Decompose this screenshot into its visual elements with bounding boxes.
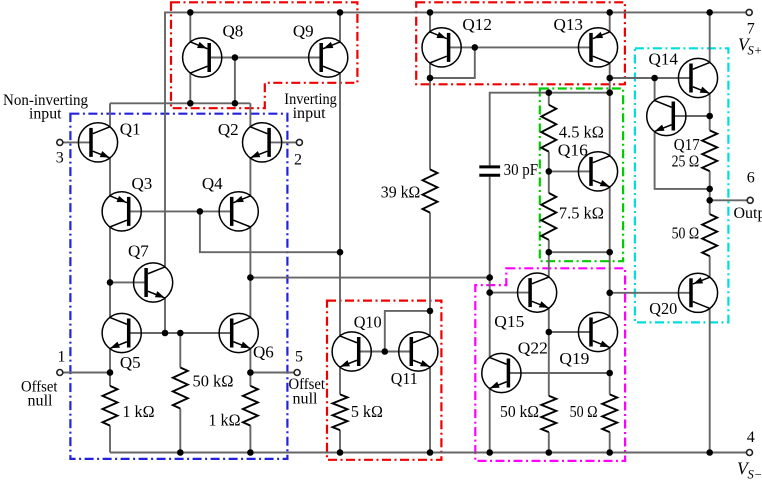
svg-text:Q1: Q1 — [120, 120, 141, 139]
junction Q12 collector node — [427, 75, 434, 82]
junction cap wire at Q13 column — [606, 89, 613, 96]
wire Q12 collector to 39k — [429, 63, 431, 169]
svg-text:Q13: Q13 — [554, 15, 584, 34]
svg-text:4: 4 — [747, 429, 755, 446]
transistor Q8 — [183, 38, 222, 77]
svg-text:50 Ω: 50 Ω — [570, 402, 598, 421]
wire Q22 base to Q19 emitter node — [508, 372, 609, 374]
transistor Q4 — [219, 192, 258, 231]
junction Q13 collector node — [606, 75, 613, 82]
junction 50R output bias on rail — [606, 449, 613, 456]
svg-text:Q5: Q5 — [120, 353, 141, 372]
junction Q15 collector node — [546, 249, 553, 256]
svg-text:50 kΩ: 50 kΩ — [500, 402, 539, 421]
svg-text:Q11: Q11 — [391, 369, 418, 388]
wire terminal 5 offset null — [250, 372, 293, 374]
junction Q8 collector node — [187, 100, 194, 107]
transistor Q12 — [422, 28, 461, 67]
wire Q12 base-collector tie — [430, 47, 475, 78]
resistor 7.5 kOhm — [541, 193, 556, 240]
junction Q17 collector node — [651, 75, 658, 82]
wire Q4 collector down — [249, 227, 251, 278]
junction 50k top on base rail — [177, 330, 184, 337]
resistor 50 Ohm output — [702, 214, 717, 256]
junction cap top node — [546, 89, 553, 96]
wire Q10/Q11 base tie to Q11 collector — [385, 311, 430, 352]
svg-text:input: input — [293, 105, 327, 122]
wire Q9 collector down to Q10 collector — [339, 73, 341, 336]
terminal pin 4 VS- — [747, 450, 753, 456]
svg-text:1 kΩ: 1 kΩ — [123, 402, 155, 421]
svg-text:null: null — [28, 392, 54, 409]
junction output node — [706, 197, 713, 204]
wire Q20 collector to rail — [709, 308, 711, 452]
svg-text:2: 2 — [294, 152, 302, 169]
svg-text:S−: S− — [748, 468, 762, 482]
svg-text:Q4: Q4 — [202, 174, 223, 193]
resistor 25 Ohm — [702, 130, 717, 171]
junction Q19 base node — [546, 329, 553, 336]
transistor Q3 — [102, 192, 141, 231]
capacitor 30 pF — [479, 165, 500, 168]
resistor 4.5 kOhm — [541, 105, 556, 152]
svg-text:Q2: Q2 — [218, 120, 239, 139]
junction 50k output bias on rail — [546, 449, 553, 456]
wire Q15 collector up — [548, 252, 550, 277]
junction base tie on 39k column — [427, 308, 434, 315]
resistor 50 kOhm output bias — [541, 396, 556, 432]
current mirror box (Q12,Q13) red dash-dot — [416, 2, 625, 84]
wire Q12 emitter to rail — [429, 12, 431, 31]
terminal pin 5 offset null — [294, 370, 300, 376]
junction Q4/Q6 collector node — [247, 274, 254, 281]
svg-text:5: 5 — [295, 349, 303, 366]
junction 5k bottom on rail — [337, 449, 344, 456]
resistor 1 kOhm right — [243, 386, 258, 426]
wire 50k resistor bottom lead — [179, 409, 181, 453]
wire right 1k resistor to rail — [249, 426, 251, 453]
wire 1k resistor to rail corner — [109, 426, 111, 453]
wire V- bottom rail — [110, 452, 747, 454]
wire output to terminal 6 — [710, 199, 747, 201]
wire Q3/Q4 base node to Q9/Q10 column — [200, 211, 340, 252]
wire Q13 collector to Q14 base — [610, 77, 691, 79]
junction Q14 collector on rail — [706, 9, 713, 16]
wire 50k to rail — [548, 432, 550, 452]
svg-text:Q12: Q12 — [462, 15, 492, 34]
svg-text:1: 1 — [58, 349, 66, 366]
wire Q10-Q11 bases — [359, 351, 412, 353]
wire Q4/Q6 collector node to gain stage — [250, 277, 489, 279]
class A gain stage bias box green dash-dot — [540, 89, 623, 262]
transistor Q7 — [134, 263, 173, 302]
transistor Q22 — [482, 353, 521, 392]
svg-text:Output: Output — [734, 205, 762, 222]
wire 50R to Q20 emitter — [709, 256, 711, 277]
wire Q3 collector down to Q5 collector — [109, 227, 111, 317]
wire Q15 base — [490, 292, 530, 294]
junction Q11 emitter on rail — [427, 449, 434, 456]
wire Q14 emitter to 25R — [709, 94, 711, 131]
wire terminal 3 to Q1 base — [63, 141, 91, 143]
wire Q1 collector up — [109, 103, 111, 127]
wire Q9 emitter to rail — [339, 12, 341, 42]
wire Q2 base to terminal 2 — [269, 141, 296, 143]
wire terminal 1 offset null — [63, 372, 110, 374]
wire 5k to rail — [339, 430, 341, 452]
resistor 50 Ohm output bias — [602, 394, 617, 432]
svg-text:Q6: Q6 — [253, 343, 274, 362]
svg-text:input: input — [29, 106, 62, 123]
output stage box cyan dash-dot — [635, 48, 729, 322]
wire Q14 collector to rail — [709, 12, 711, 62]
junction Q17 emitter node — [706, 186, 713, 193]
wire Q8-Q9 bases — [209, 57, 321, 59]
wire Q16 base — [549, 170, 591, 172]
junction base wire on Q9/Q10 column — [337, 249, 344, 256]
wire Q12-Q13 bases — [449, 46, 591, 48]
svg-text:S+: S+ — [748, 44, 762, 58]
junction base drop on collector wire — [232, 100, 239, 107]
wire 7.5k top lead — [548, 171, 550, 193]
svg-text:5 kΩ: 5 kΩ — [351, 402, 383, 421]
wire Q5-Q6 bases — [129, 332, 232, 334]
wire Q11 emitter to rail — [429, 367, 431, 452]
svg-text:25 Ω: 25 Ω — [672, 152, 700, 171]
resistor 39 kOhm — [423, 169, 438, 212]
wire 30pF bottom plate lead — [489, 177, 491, 278]
wire V+ top rail and Q7 collector riser — [165, 12, 746, 267]
output stage bias box magenta dash-dot — [475, 268, 625, 461]
terminal pin 6 output — [747, 197, 753, 203]
wire Q1/Q2 collectors horizontal — [110, 102, 250, 104]
transistor Q5 — [102, 313, 141, 352]
junction Q3/Q4 base node — [197, 208, 204, 215]
transistor Q6 — [219, 313, 258, 352]
svg-text:Q10: Q10 — [354, 313, 382, 332]
svg-text:Q9: Q9 — [293, 22, 314, 41]
junction Q22 emitter on rail — [486, 449, 493, 456]
svg-text:null: null — [293, 391, 319, 408]
junction Q8/Q9 base node — [232, 54, 239, 61]
wire Q17 collector to Q14 base — [654, 78, 656, 100]
wire Q13 emitter to rail — [609, 12, 611, 31]
wire Q5 emitter to 1k resistor — [109, 349, 111, 386]
transistor Q10 — [332, 332, 371, 371]
wire Q19 emitter to 50R — [609, 348, 611, 395]
wire 7.5k bottom lead — [548, 240, 550, 252]
junction Q20 base node — [606, 290, 613, 297]
junction Q15 base node — [486, 289, 493, 296]
transistor Q20 — [678, 273, 717, 312]
resistor 1 kOhm left — [103, 386, 118, 426]
current mirror box (Q8,Q9) red dash-dot — [171, 2, 357, 108]
junction Q10/Q11 base node — [382, 348, 389, 355]
junction Q7 base node — [107, 279, 114, 286]
junction offset null 1 node — [107, 369, 114, 376]
wire Q7 base — [110, 281, 146, 283]
transistor Q2 — [243, 123, 282, 162]
transistor Q1 — [78, 123, 117, 162]
junction 7.5k bottom on Q16 column — [606, 249, 613, 256]
svg-text:Q19: Q19 — [559, 349, 589, 368]
transistor Q17 — [647, 96, 686, 135]
junction Q8 emitter on rail — [187, 9, 194, 16]
transistor Q14 — [678, 58, 717, 97]
junction Q12 base node — [472, 44, 479, 51]
wire 50k resistor top lead — [179, 333, 181, 368]
wire Q17 base — [673, 115, 709, 117]
wire 25R to output node — [709, 171, 711, 214]
wire Q7 emitter down to Q5/Q6 base rail — [164, 298, 166, 333]
junction Q13 emitter on rail — [606, 9, 613, 16]
wire Q8 collector down — [189, 73, 191, 103]
wire Q17 emitter to output column — [655, 132, 710, 189]
svg-text:Q3: Q3 — [132, 174, 153, 193]
terminal pin 3 non-inverting input — [57, 139, 63, 145]
wire 50R to rail — [609, 432, 611, 452]
terminal pin 1 offset null — [57, 370, 63, 376]
wire Q10 emitter to 5k — [339, 367, 341, 394]
svg-text:7.5 kΩ: 7.5 kΩ — [559, 204, 604, 223]
wire Q16 emitter down to Q19 collector — [609, 187, 611, 316]
wire Q20 base to Q19 collector node — [610, 292, 691, 294]
transistor Q19 — [578, 312, 617, 351]
svg-text:Q20: Q20 — [649, 299, 677, 318]
wire Q19 base — [549, 331, 591, 333]
wire Q1 emitter to Q3 emitter — [109, 158, 111, 196]
svg-text:1 kΩ: 1 kΩ — [209, 411, 241, 430]
junction Q9 emitter on rail — [337, 9, 344, 16]
svg-text:6: 6 — [747, 170, 755, 187]
wire 30pF top plate to Q13 collector node — [490, 93, 610, 166]
wire gain stage input column to Q22 collector — [489, 278, 491, 358]
junction Q20 collector on rail — [706, 449, 713, 456]
transistor Q15 — [518, 273, 557, 312]
svg-text:30 pF: 30 pF — [504, 160, 538, 179]
wire Q2 emitter to Q4 emitter — [249, 158, 251, 196]
svg-text:Q14: Q14 — [649, 50, 679, 69]
svg-text:Q15: Q15 — [494, 312, 524, 331]
differential amplifier box blue dash-dot — [70, 114, 287, 459]
wire Q2 collector up — [249, 103, 251, 127]
svg-text:50 kΩ: 50 kΩ — [193, 372, 234, 391]
transistor Q9 — [309, 38, 348, 77]
svg-text:Q7: Q7 — [128, 242, 149, 261]
current mirror box (Q10,Q11) red dash-dot — [327, 301, 441, 460]
junction 1k bottom on rail — [247, 449, 254, 456]
junction 50k bottom on rail — [177, 449, 184, 456]
junction Q7 emitter on base rail — [162, 330, 169, 337]
terminal pin 7 VS+ — [746, 9, 752, 15]
svg-text:Q8: Q8 — [223, 22, 244, 41]
wire Q3-Q4 bases — [129, 210, 232, 212]
junction Q16 base node — [546, 168, 553, 175]
junction Q12 emitter on rail — [427, 9, 434, 16]
transistor Q11 — [399, 332, 438, 371]
transistor Q13 — [578, 28, 617, 67]
resistor 5 kOhm — [333, 394, 348, 430]
junction Q17 base node — [706, 113, 713, 120]
wire Q13 collector to Q16 collector — [609, 63, 611, 156]
wire Q22 emitter to rail — [489, 389, 491, 453]
wire Q8 emitter to rail — [189, 12, 191, 42]
wire Q8/Q9 base drop to input stage — [234, 58, 236, 104]
wire 4.5k bottom to node — [548, 152, 550, 172]
wire Q6 collector up — [249, 278, 251, 318]
wire 7.5k bottom node — [549, 251, 610, 253]
svg-text:Q16: Q16 — [558, 141, 588, 160]
svg-text:Q22: Q22 — [518, 339, 548, 358]
terminal pin 2 inverting input — [296, 139, 302, 145]
wire 4.5k top lead — [548, 93, 550, 105]
wire Q15 emitter to 50k — [548, 308, 550, 396]
junction offset null 5 node — [247, 369, 254, 376]
junction Q22 base node — [606, 370, 613, 377]
svg-text:39 kΩ: 39 kΩ — [381, 183, 421, 202]
svg-text:4.5 kΩ: 4.5 kΩ — [559, 123, 604, 142]
svg-text:3: 3 — [56, 150, 64, 167]
transistor Q16 — [578, 152, 617, 191]
svg-text:50 Ω: 50 Ω — [672, 224, 700, 243]
junction cap bottom node — [486, 274, 493, 281]
wire Q6 emitter to 1k resistor — [249, 349, 251, 386]
wire 39k to Q11 collector — [429, 213, 431, 336]
resistor 50 kOhm diff stage — [173, 368, 188, 409]
